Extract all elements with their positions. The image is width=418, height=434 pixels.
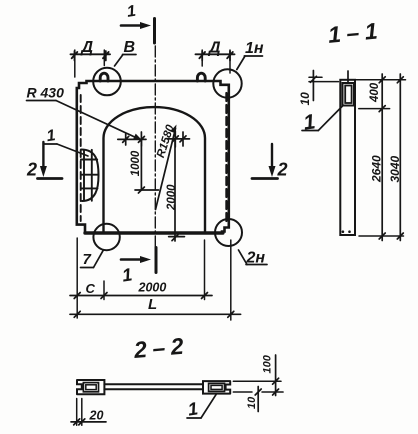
bar centerline stub xyxy=(347,71,349,83)
svg-text:В: В xyxy=(124,39,136,56)
svg-text:Д: Д xyxy=(80,39,94,56)
detail circle 1н xyxy=(213,69,241,97)
R1580 leader xyxy=(156,129,176,210)
dim 10 line xyxy=(312,71,314,101)
svg-text:2н: 2н xyxy=(246,250,266,267)
left edge bump detail xyxy=(81,150,99,202)
right block embed inner xyxy=(211,385,222,389)
detail circle B xyxy=(93,68,121,96)
lifting loop left xyxy=(100,73,108,81)
dim 20 line xyxy=(71,421,106,423)
section mark 2 right xyxy=(271,144,273,169)
bump grid verticals xyxy=(83,150,85,201)
svg-text:2640: 2640 xyxy=(370,155,384,183)
embed plate outer xyxy=(343,83,355,106)
section mark 1 bottom arrow xyxy=(121,258,146,261)
svg-text:2: 2 xyxy=(26,160,37,180)
dimension D left extension lines xyxy=(74,50,76,77)
dim 20 extension lines xyxy=(76,399,78,426)
dimension D left line with arrows xyxy=(71,53,111,55)
dim 100 line xyxy=(275,355,277,396)
svg-text:3040: 3040 xyxy=(388,155,402,182)
svg-text:2: 2 xyxy=(277,160,288,180)
section 1-1 mid extension (400) xyxy=(359,108,390,110)
svg-text:1н: 1н xyxy=(245,40,264,57)
svg-text:L: L xyxy=(148,296,157,313)
svg-text:400: 400 xyxy=(369,82,381,103)
dimension D right line with arrows xyxy=(196,53,235,55)
label 1н leader xyxy=(237,56,245,70)
svg-text:1000: 1000 xyxy=(130,150,142,176)
section 2-2 web top line xyxy=(104,383,203,385)
dim 10 extension lines xyxy=(309,76,322,78)
section mark 2 left xyxy=(42,142,44,169)
svg-text:100: 100 xyxy=(262,354,274,373)
label 2н leader xyxy=(239,250,248,265)
section mark 1 bottom bar xyxy=(155,248,158,273)
R430 leader xyxy=(56,101,139,140)
svg-text:2 – 2: 2 – 2 xyxy=(132,333,185,363)
svg-text:20: 20 xyxy=(89,409,104,423)
label B leader xyxy=(115,55,124,67)
svg-text:10: 10 xyxy=(298,92,312,106)
svg-text:7: 7 xyxy=(83,251,92,268)
doorway arch opening xyxy=(104,107,206,233)
section 1-1 bar xyxy=(340,80,355,235)
svg-text:2000: 2000 xyxy=(166,184,178,211)
dim line 400/2640 xyxy=(381,74,383,241)
dim 100/10 bottom extension xyxy=(233,391,252,393)
right edge groove dashed xyxy=(225,93,227,224)
panel outline xyxy=(77,81,229,233)
dimension 1000 vertical xyxy=(140,139,142,190)
svg-text:R 430: R 430 xyxy=(27,85,65,101)
dim 100 extension top xyxy=(233,380,281,382)
dimension D right extension lines xyxy=(201,50,203,66)
label 7 leader xyxy=(94,250,104,267)
dimension C 2000 line xyxy=(70,295,212,297)
svg-text:2000: 2000 xyxy=(138,281,167,295)
left block embed outer xyxy=(83,383,98,392)
dimension 2000 vertical xyxy=(174,139,176,241)
dim ticks left pair xyxy=(118,138,146,140)
svg-text:10: 10 xyxy=(246,396,258,409)
bar bottom dots xyxy=(342,230,345,233)
dimension L line xyxy=(70,313,241,315)
section 1-1 top extension xyxy=(356,79,406,81)
section 1-1 bottom extension xyxy=(359,235,404,237)
section mark 1 top bar xyxy=(153,19,156,44)
dim ticks right pair xyxy=(168,138,190,140)
embed plate inner xyxy=(345,86,351,104)
bottom dim extension lines xyxy=(76,238,78,318)
right block embed outer xyxy=(209,383,225,391)
section 2-2 web bottom line xyxy=(104,388,203,390)
section 2-2 right block xyxy=(203,381,230,394)
centerline vertical xyxy=(154,46,156,250)
lifting loop right xyxy=(197,73,205,81)
detail circle 7 xyxy=(93,224,119,250)
left block embed inner xyxy=(86,385,96,390)
section 2-2 left block xyxy=(77,380,104,394)
left edge groove dashed xyxy=(80,95,82,221)
dim 10 line xyxy=(257,387,259,412)
bump grid horizontals xyxy=(81,159,97,161)
dim line 3040 xyxy=(399,74,401,241)
panel bottom edge thick xyxy=(85,231,223,234)
svg-text:Д: Д xyxy=(207,40,221,57)
detail circle 2н xyxy=(215,219,242,246)
section mark 1 top arrow xyxy=(121,24,146,27)
svg-text:С: С xyxy=(86,281,96,296)
svg-text:1 – 1: 1 – 1 xyxy=(327,18,378,48)
